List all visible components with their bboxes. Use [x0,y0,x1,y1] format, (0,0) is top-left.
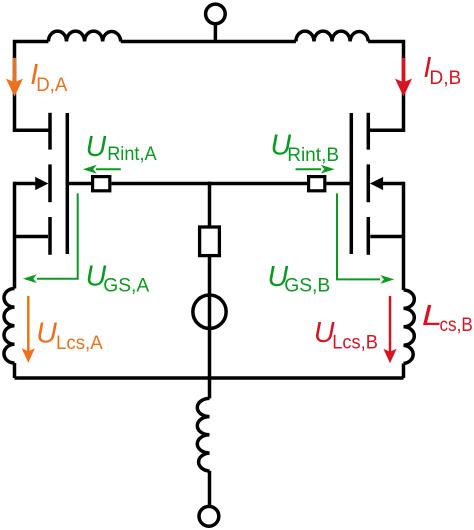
label ID,B [423,52,461,89]
voltage arrow URint,A [83,165,121,174]
label UGS,A [86,261,150,297]
label Lcs,B [422,300,473,336]
label ID,A [30,59,67,96]
arrow head ULcs,B [383,349,396,364]
wire top terminal stem [214,25,218,44]
arrow shaft ULcs,A [27,296,30,352]
inductor bottom [197,398,209,471]
label ULcs,A [36,318,102,355]
arrow shaft ID,B [402,58,406,84]
gate bar A [66,113,70,254]
wire center column upper [208,182,212,227]
arrow head ULcs,A [22,348,35,363]
voltage arrow UGS,B [337,193,394,283]
current arrow ID,A [6,58,23,97]
wire body connection B [382,182,403,186]
svg-text:Rint,B: Rint,B [287,144,339,166]
wire left rail to bottom rail [13,363,17,378]
source channel bar B [367,217,371,255]
wire left rail mid (body/source to inductor) [13,182,17,289]
wire source connection A [15,235,49,239]
svg-text:U: U [36,318,57,350]
transistor Q B (right MOSFET) [351,113,403,255]
resistor center [200,227,220,256]
svg-text:D,B: D,B [429,67,461,89]
top terminal [206,4,226,43]
arrow head UGS,A [23,274,37,283]
arrow shaft ULcs,B [389,296,392,353]
inductor top-left [48,31,120,41]
wire below bottom rail [208,378,212,398]
arrow shaft URint,A [96,168,121,170]
voltage arrow ULcs,A [22,296,35,363]
arrow head UGS,B [380,275,394,284]
svg-text:cs,B: cs,B [440,314,473,336]
arrow elbow UGS,B [337,193,380,279]
inductor Lcs,B (right) [404,290,415,363]
svg-text:GS,B: GS,B [284,274,330,296]
svg-text:Lcs,A: Lcs,A [56,332,103,354]
wire resistor B to gate B [326,182,351,186]
label ULcs,B [314,317,378,354]
current arrow ID,B [395,58,412,97]
wire center to resistor B [208,182,308,186]
inductor Lcs,A (left) [4,289,15,364]
resistor Rint,A [93,177,110,191]
wire top rail middle [121,40,296,44]
svg-text:D,A: D,A [36,74,67,96]
wire resistor A to center [111,182,211,186]
inductor top-right [296,31,368,41]
label URint,A [86,131,157,165]
svg-text:U: U [86,131,107,163]
wire to bottom terminal [208,471,212,506]
wire center column lower [208,256,212,378]
label UGS,B [268,261,331,296]
wire gate A to resistor [67,182,92,186]
wire top rail left corner + left drain stub [15,42,51,131]
resistor Rint,B [309,177,325,191]
body arrow B [370,177,383,190]
svg-text:Lcs,B: Lcs,B [332,331,378,353]
body channel bar A [48,164,52,202]
source channel bar A [48,217,52,255]
svg-text:Rint,A: Rint,A [107,143,156,165]
wire body connection A [15,182,37,186]
drain channel bar B [367,113,371,150]
wire source connection B [370,235,403,239]
body channel bar B [367,164,371,202]
current source [193,295,226,328]
label URint,B [271,130,340,166]
wire right rail mid [402,182,406,290]
wire top rail right corner + right drain stub [368,42,403,131]
gate bar B [350,113,354,254]
voltage arrow UGS,A [23,193,78,283]
body arrow A [35,177,48,190]
arrow shaft ID,A [13,58,17,84]
transistor Q A (left MOSFET) [15,113,68,255]
arrow shaft URint,B [296,168,322,170]
voltage arrow URint,B [296,165,335,174]
svg-text:GS,A: GS,A [103,275,149,297]
wire bottom rail [15,376,404,380]
arrow head ID,A [6,79,23,97]
wire right rail to bottom rail [402,364,406,379]
drain channel bar A [48,113,52,150]
voltage arrow ULcs,B [383,296,396,363]
arrow head URint,A [83,165,97,174]
bottom terminal [199,506,219,526]
arrow elbow UGS,A [37,193,78,278]
arrow head ID,B [395,79,412,97]
arrow head URint,B [321,165,335,174]
